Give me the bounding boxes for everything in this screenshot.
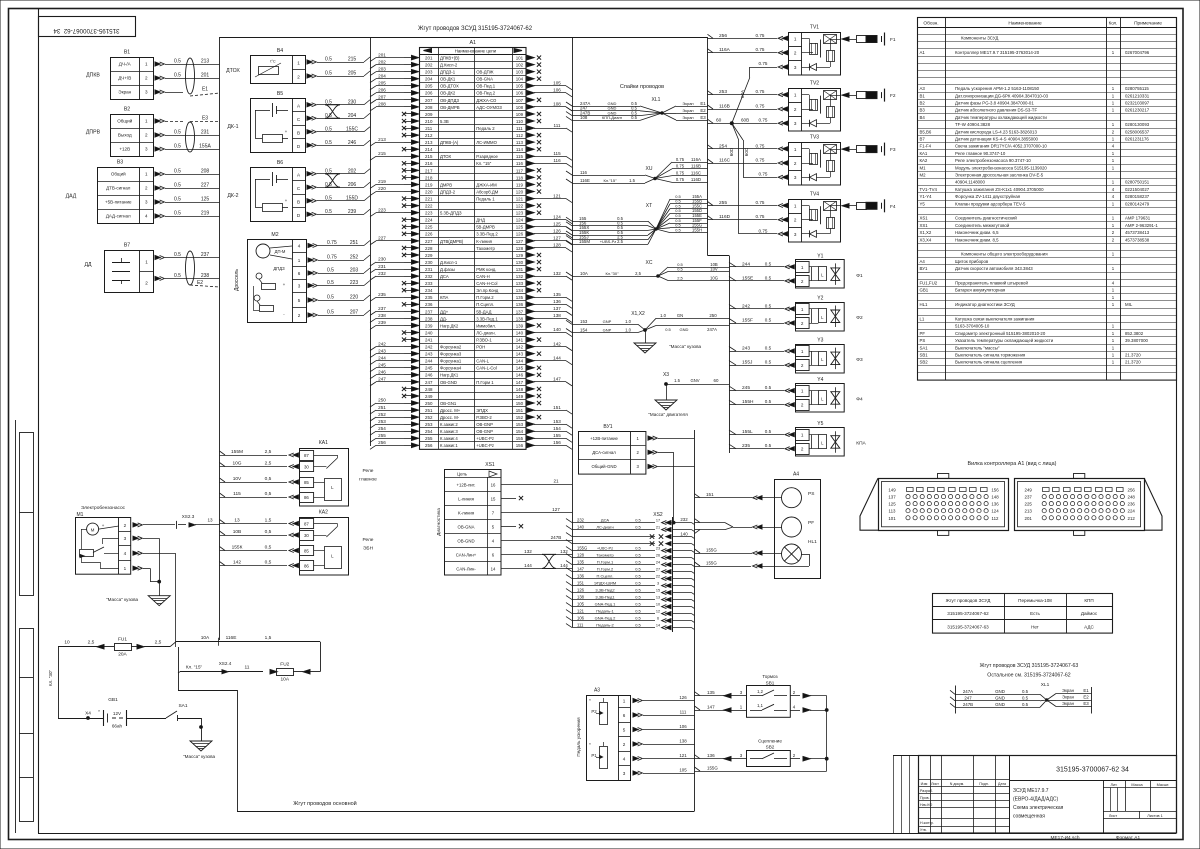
svg-text:223: 223 (350, 280, 359, 286)
svg-text:В7: В7 (124, 243, 130, 249)
svg-text:227: 227 (425, 239, 433, 244)
svg-text:1: 1 (794, 204, 797, 209)
svg-text:Дата: Дата (998, 782, 1006, 786)
svg-text:155Н: 155Н (742, 399, 754, 405)
svg-text:15: 15 (656, 588, 660, 592)
svg-text:251: 251 (350, 240, 359, 246)
svg-text:1,1: 1,1 (757, 703, 763, 708)
svg-text:Педаль 1: Педаль 1 (476, 196, 495, 201)
svg-text:4: 4 (298, 244, 301, 249)
ECU plug right half (1015, 474, 1145, 536)
svg-text:SB1: SB1 (766, 681, 775, 686)
svg-text:1: 1 (145, 119, 148, 124)
svg-text:0.75: 0.75 (759, 172, 768, 177)
title block footer texts (1050, 835, 1140, 841)
svg-text:105: 105 (516, 84, 524, 89)
svg-text:0.5: 0.5 (765, 360, 772, 365)
svg-text:155Е: 155Е (742, 275, 753, 281)
svg-text:153: 153 (580, 319, 588, 324)
svg-text:ДП-М: ДП-М (275, 249, 286, 254)
svg-text:F4: F4 (890, 204, 896, 210)
svg-text:0.5: 0.5 (635, 524, 641, 529)
svg-text:249: 249 (425, 394, 433, 399)
svg-text:АМР 179631: АМР 179631 (1125, 216, 1151, 221)
svg-text:232: 232 (425, 274, 433, 279)
svg-text:ДПКВ: ДПКВ (86, 73, 100, 79)
svg-text:252: 252 (425, 415, 433, 420)
svg-text:+12В: +12В (119, 147, 130, 152)
svg-text:26: 26 (656, 553, 660, 557)
svg-text:148: 148 (991, 495, 999, 500)
splice X3 engine ground (663, 372, 729, 400)
svg-text:136: 136 (577, 573, 585, 578)
svg-text:3.3В-Пед.1: 3.3В-Пед.1 (476, 316, 498, 321)
svg-text:121: 121 (577, 608, 585, 613)
svg-text:136: 136 (553, 299, 561, 304)
svg-text:Электробензонасос: Электробензонасос (81, 505, 126, 511)
svg-text:132: 132 (553, 271, 561, 276)
svg-text:Дат.синхронизации ДG-6РК 409: Дат.синхронизации ДG-6РК 40904.3847010-0… (955, 93, 1049, 98)
svg-text:218: 218 (425, 175, 433, 180)
svg-text:TV2: TV2 (810, 81, 819, 87)
svg-text:3,3В-Пед2: 3,3В-Пед2 (595, 587, 615, 592)
svg-text:203: 203 (425, 70, 433, 75)
svg-text:В6: В6 (277, 160, 283, 166)
svg-text:ОВ-GND: ОВ-GND (457, 539, 474, 544)
svg-text:Компоненты ЗСУД: Компоненты ЗСУД (961, 36, 998, 41)
svg-text:В2: В2 (920, 101, 926, 106)
svg-text:251: 251 (378, 405, 386, 410)
svg-text:XS2.4: XS2.4 (219, 661, 232, 666)
svg-text:2: 2 (801, 279, 804, 284)
svg-text:122: 122 (516, 204, 524, 209)
svg-text:2,5: 2,5 (155, 640, 162, 646)
svg-text:109: 109 (516, 112, 524, 117)
svg-text:Ф3: Ф3 (856, 357, 863, 363)
wires to Y3 (729, 346, 794, 368)
svg-text:Y5: Y5 (920, 201, 926, 206)
svg-text:230: 230 (378, 257, 386, 262)
svg-text:60D: 60D (729, 147, 734, 156)
svg-text:F1: F1 (890, 37, 896, 43)
svg-text:ОВ-Пед.2: ОВ-Пед.2 (476, 91, 496, 96)
accelerator pedal module A3 (576, 688, 631, 781)
svg-text:256: 256 (425, 443, 433, 448)
svg-text:Е2: Е2 (700, 108, 706, 113)
svg-text:TV4: TV4 (810, 191, 819, 197)
A1 left pin stubs and wires (370, 52, 419, 449)
svg-text:108: 108 (553, 102, 561, 107)
svg-text:238: 238 (378, 313, 386, 318)
svg-text:*: * (589, 742, 591, 747)
svg-text:10В: 10В (233, 529, 242, 535)
svg-text:Вилка контроллера А1 (вид: Вилка контроллера А1 (вид с лица) (968, 461, 1057, 467)
svg-text:0261230217: 0261230217 (1125, 108, 1150, 113)
svg-text:0.5: 0.5 (635, 580, 641, 585)
svg-text:244: 244 (425, 359, 433, 364)
svg-text:116Е: 116Е (226, 635, 237, 641)
svg-text:0.5: 0.5 (174, 130, 181, 136)
svg-text:125: 125 (516, 225, 524, 230)
svg-text:SB2: SB2 (920, 360, 929, 365)
svg-text:Наконечник диам. 6,5: Наконечник диам. 6,5 (955, 230, 999, 235)
svg-text:0.5: 0.5 (665, 327, 671, 332)
svg-text:125: 125 (888, 502, 896, 507)
svg-text:М2: М2 (271, 232, 278, 238)
svg-text:Е3: Е3 (1083, 701, 1089, 706)
svg-text:2: 2 (794, 51, 797, 56)
svg-text:Лит.: Лит. (1111, 783, 1118, 787)
svg-text:315195-3700067-62 34: 315195-3700067-62 34 (53, 27, 120, 34)
ground symbol M1 body (106, 596, 170, 606)
svg-text:147: 147 (707, 704, 715, 709)
svg-text:П.Горм.1: П.Горм.1 (597, 559, 614, 564)
svg-text:116В: 116В (691, 164, 701, 169)
svg-text:13: 13 (207, 518, 213, 523)
svg-text:147: 147 (553, 377, 561, 382)
svg-text:КА1: КА1 (920, 151, 928, 156)
svg-text:112: 112 (992, 516, 1000, 521)
splice XC battery 30 feed (566, 260, 718, 281)
svg-text:ОВ-Пед.1: ОВ-Пед.1 (476, 84, 496, 89)
svg-text:Х3,Х4: Х3,Х4 (920, 237, 932, 242)
svg-text:10: 10 (656, 602, 660, 606)
svg-text:КА1: КА1 (319, 440, 328, 446)
svg-text:Дросс. М+: Дросс. М+ (440, 408, 461, 413)
harness boundary top edge (220, 37, 708, 39)
svg-text:256: 256 (378, 440, 386, 445)
svg-text:Датчик детонации KS-4-S 409: Датчик детонации KS-4-S 40904.3855000 (955, 137, 1039, 142)
svg-text:20А: 20А (118, 652, 127, 658)
svg-text:155G: 155G (706, 560, 717, 565)
svg-text:213: 213 (378, 137, 386, 142)
svg-text:Масса: Масса (1131, 783, 1143, 787)
svg-text:М: М (91, 528, 95, 533)
svg-text:5В-ДАД: 5В-ДАД (476, 309, 491, 314)
svg-text:230: 230 (425, 260, 433, 265)
svg-text:203: 203 (378, 66, 386, 71)
svg-text:М2: М2 (920, 173, 927, 178)
svg-text:Форсунка4: Форсунка4 (440, 366, 462, 371)
svg-text:+U6С-Pz: +U6С-Pz (597, 545, 613, 550)
svg-text:121: 121 (553, 193, 561, 198)
svg-text:4: 4 (623, 757, 626, 762)
svg-text:XS2: XS2 (653, 512, 663, 518)
svg-text:116D: 116D (719, 214, 731, 220)
svg-text:В3: В3 (117, 160, 123, 166)
connector XS1 diagnostic (436, 462, 501, 575)
svg-text:0.5: 0.5 (675, 227, 681, 232)
svg-text:0232103097: 0232103097 (1125, 101, 1150, 106)
svg-text:250: 250 (378, 398, 386, 403)
svg-text:204: 204 (425, 77, 433, 82)
svg-text:151: 151 (553, 405, 561, 410)
svg-text:128: 128 (577, 552, 585, 557)
svg-text:0.5: 0.5 (765, 385, 772, 390)
ignition coil TV4 (789, 191, 841, 242)
svg-text:10G: 10G (710, 275, 718, 280)
svg-text:0.5: 0.5 (325, 140, 332, 146)
ECU connector table A1 (420, 40, 527, 449)
svg-text:213: 213 (1025, 509, 1033, 514)
svg-text:220: 220 (378, 186, 386, 191)
svg-text:М1: М1 (920, 165, 927, 170)
svg-text:237: 237 (201, 252, 210, 258)
svg-text:225: 225 (425, 225, 433, 230)
svg-text:ДАД: ДАД (66, 194, 77, 200)
svg-text:Утв.: Утв. (920, 828, 927, 832)
wires VU1 (648, 436, 695, 524)
svg-text:ДНД: ДНД (476, 218, 485, 223)
svg-text:Датчик абсолютного давления: Датчик абсолютного давления DS-S3-TF (955, 108, 1037, 113)
svg-text:Д.Кисл-2: Д.Кисл-2 (440, 63, 458, 68)
svg-text:104: 104 (516, 77, 524, 82)
svg-text:0.5: 0.5 (765, 399, 772, 404)
svg-text:КПП-Диагн: КПП-Диагн (602, 115, 622, 120)
svg-text:202: 202 (348, 168, 357, 174)
svg-text:149: 149 (888, 488, 896, 493)
svg-text:124: 124 (553, 214, 561, 219)
svg-text:156: 156 (553, 440, 561, 445)
harness -63 note (980, 663, 1079, 679)
svg-text:1: 1 (298, 258, 301, 263)
svg-text:ОВ-ДМРВ: ОВ-ДМРВ (440, 105, 460, 110)
svg-text:HL1: HL1 (808, 539, 817, 545)
svg-text:0.5: 0.5 (174, 59, 181, 65)
brake switch SB1 (747, 674, 791, 717)
svg-text:0.5: 0.5 (765, 429, 772, 434)
svg-text:116: 116 (580, 170, 588, 175)
svg-text:3: 3 (794, 121, 797, 126)
svg-text:N докум.: N докум. (950, 782, 965, 786)
svg-text:0.75: 0.75 (759, 61, 768, 66)
svg-text:Цепь: Цепь (457, 471, 468, 476)
svg-text:107: 107 (516, 98, 524, 103)
svg-text:236: 236 (1128, 502, 1136, 507)
svg-text:239: 239 (378, 320, 386, 325)
svg-text:116Е: 116Е (580, 178, 590, 183)
wires XS1 (501, 479, 572, 569)
svg-text:0.5: 0.5 (635, 587, 641, 592)
svg-text:КПА: КПА (440, 295, 449, 300)
svg-text:60С: 60С (744, 147, 749, 156)
svg-text:252: 252 (350, 255, 359, 261)
svg-text:5: 5 (298, 298, 301, 303)
svg-text:Педаль ускорения: Педаль ускорения (576, 717, 581, 757)
svg-text:101: 101 (516, 55, 524, 60)
svg-text:ДТВ-сигнал: ДТВ-сигнал (106, 186, 131, 191)
ignition coil TV3 (789, 135, 841, 186)
svg-text:0.75: 0.75 (756, 47, 765, 52)
spark plug F3 (842, 143, 896, 156)
svg-text:L1: L1 (920, 317, 925, 322)
svg-text:222: 222 (425, 204, 433, 209)
svg-text:ДСА: ДСА (601, 517, 610, 522)
svg-text:Жгут проводов ЗСУД 315195-3: Жгут проводов ЗСУД 315195-3724067-63 (980, 663, 1079, 669)
svg-text:Жгут проводов ЗСУД: Жгут проводов ЗСУД (946, 598, 992, 603)
svg-text:3: 3 (145, 147, 148, 152)
svg-text:153: 153 (516, 422, 524, 427)
svg-text:0261231176: 0261231176 (1125, 137, 1149, 142)
svg-text:Лист: Лист (931, 782, 939, 786)
svg-text:ДСА: ДСА (440, 274, 449, 279)
svg-text:116А: 116А (719, 47, 731, 53)
svg-text:40904.1148000: 40904.1148000 (955, 180, 985, 185)
svg-text:225: 225 (1025, 502, 1033, 507)
svg-text:Реле главное 90.3747-10: Реле главное 90.3747-10 (955, 151, 1006, 156)
svg-text:Примечание: Примечание (1134, 21, 1162, 27)
svg-text:127: 127 (552, 507, 560, 512)
svg-text:212: 212 (425, 133, 433, 138)
svg-text:Выключатель "массы": Выключатель "массы" (955, 345, 1000, 350)
svg-text:211: 211 (425, 126, 433, 131)
svg-text:А1: А1 (920, 50, 926, 55)
svg-text:0.5: 0.5 (174, 183, 181, 189)
wires to TV2 pins 1,2 (708, 89, 788, 111)
svg-text:242: 242 (742, 303, 750, 309)
svg-text:5В-ДМРВ: 5В-ДМРВ (476, 225, 495, 230)
svg-text:154: 154 (516, 429, 524, 434)
svg-text:0.75: 0.75 (676, 157, 685, 162)
svg-text:TV1: TV1 (810, 25, 819, 31)
svg-text:201: 201 (1025, 516, 1033, 521)
svg-text:XC: XC (646, 260, 653, 266)
svg-text:Соединитель межжгутовой: Соединитель межжгутовой (955, 223, 1010, 228)
svg-text:209: 209 (425, 112, 433, 117)
svg-text:208: 208 (425, 105, 433, 110)
svg-text:Y2: Y2 (817, 296, 823, 302)
connector B6 lambda sensor DK-2 (227, 160, 305, 222)
svg-text:Пров.: Пров. (920, 796, 930, 800)
svg-text:"Масса" кузова: "Масса" кузова (183, 754, 215, 759)
svg-text:87: 87 (304, 522, 309, 527)
svg-text:В3: В3 (920, 108, 926, 113)
svg-text:1.0: 1.0 (625, 319, 631, 324)
svg-text:1.0: 1.0 (660, 313, 666, 318)
svg-text:1: 1 (801, 433, 804, 438)
master switch SA1 (166, 703, 202, 741)
svg-text:1,5: 1,5 (265, 518, 272, 524)
svg-text:219: 219 (425, 182, 433, 187)
harness boundary bottom-left segment (178, 647, 238, 811)
svg-text:CAN-L-Col: CAN-L-Col (476, 366, 497, 371)
svg-text:0.5: 0.5 (765, 346, 772, 351)
svg-text:Батарея аккумуляторная: Батарея аккумуляторная (955, 288, 1006, 293)
svg-text:245: 245 (425, 366, 433, 371)
svg-text:П.Горм.2: П.Горм.2 (597, 566, 614, 571)
svg-text:А3: А3 (594, 688, 600, 694)
svg-text:248: 248 (1128, 495, 1136, 500)
components list table (917, 18, 1177, 381)
svg-text:ДК-1: ДК-1 (227, 124, 238, 130)
svg-text:0.5: 0.5 (327, 295, 334, 301)
svg-text:125: 125 (553, 221, 561, 226)
svg-text:Е2: Е2 (197, 280, 203, 286)
svg-text:TV3: TV3 (810, 135, 819, 141)
svg-text:Диагностика: Диагностика (436, 508, 442, 536)
svg-text:227: 227 (201, 183, 210, 189)
wires to TV4 pins 1,2 (708, 200, 788, 222)
svg-text:106: 106 (577, 615, 585, 620)
svg-text:245: 245 (378, 362, 386, 367)
svg-text:П.Сцепл.: П.Сцепл. (597, 573, 614, 578)
svg-text:155L: 155L (742, 429, 753, 435)
wires A4 (680, 492, 809, 568)
svg-text:147: 147 (516, 380, 524, 385)
svg-text:Общий: Общий (111, 171, 126, 177)
svg-text:253: 253 (378, 419, 386, 424)
svg-text:247: 247 (425, 380, 433, 385)
wires B6 to A1 (202, 206, 155D, 239) (307, 168, 370, 216)
svg-text:133: 133 (516, 281, 524, 286)
svg-text:3: 3 (623, 771, 626, 776)
svg-text:Выключатель сигнала торможен: Выключатель сигнала торможения (955, 353, 1026, 358)
svg-text:2: 2 (124, 523, 127, 528)
splice XT battery-plus bundle (566, 194, 708, 245)
svg-text:106: 106 (553, 88, 561, 93)
svg-text:Датчик скорости автомобиля: Датчик скорости автомобиля 343.3843 (955, 266, 1033, 271)
svg-text:HL1: HL1 (920, 302, 929, 307)
svg-text:15: 15 (491, 496, 496, 501)
svg-text:116В: 116В (719, 104, 730, 110)
svg-text:135: 135 (553, 292, 561, 297)
svg-text:GNP: GNP (603, 327, 612, 332)
svg-text:146: 146 (516, 373, 524, 378)
injector valve Y4 (796, 377, 863, 412)
svg-text:231: 231 (378, 264, 386, 269)
svg-text:Н.контр.: Н.контр. (920, 821, 934, 825)
svg-text:В: В (297, 131, 300, 136)
svg-text:60В: 60В (741, 118, 749, 123)
wire 60 ignition ground node (708, 61, 788, 236)
svg-text:155G: 155G (577, 545, 587, 550)
svg-text:117: 117 (516, 168, 524, 173)
inter-harness connector XS2 bundle (566, 512, 695, 632)
svg-text:2: 2 (298, 313, 301, 318)
svg-text:ДД+: ДД+ (440, 309, 449, 314)
svg-text:П.Сцепл.: П.Сцепл. (476, 302, 494, 307)
svg-text:ОВ-ДПЖ: ОВ-ДПЖ (476, 70, 493, 75)
svg-text:85: 85 (304, 549, 309, 554)
svg-text:114: 114 (516, 147, 524, 152)
spark plug F1 (842, 33, 896, 46)
svg-text:111: 111 (516, 126, 523, 131)
svg-text:0,5: 0,5 (265, 529, 272, 535)
svg-text:А4: А4 (920, 259, 926, 264)
svg-text:155D: 155D (346, 195, 358, 201)
svg-text:220: 220 (350, 295, 359, 301)
svg-text:3: 3 (794, 65, 797, 70)
svg-text:10V: 10V (710, 266, 718, 271)
svg-text:140: 140 (577, 524, 585, 529)
svg-text:220: 220 (425, 189, 433, 194)
wires M1 pins (133, 514, 220, 647)
svg-text:116А: 116А (691, 157, 701, 162)
svg-text:ДЖХА-СО: ДЖХА-СО (476, 98, 497, 103)
svg-text:В4: В4 (277, 48, 283, 54)
svg-text:118: 118 (516, 175, 524, 180)
svg-text:235: 235 (742, 443, 750, 449)
wires B3 to A1 (208, 227, 125, 219) (155, 169, 220, 219)
svg-text:207: 207 (350, 310, 359, 316)
svg-text:5.3В-ДПДЗ: 5.3В-ДПДЗ (440, 211, 462, 216)
svg-text:136: 136 (516, 302, 524, 307)
svg-text:239: 239 (425, 323, 433, 328)
svg-text:2: 2 (801, 321, 804, 326)
svg-text:Кл. "30": Кл. "30" (48, 669, 53, 686)
svg-text:131: 131 (516, 267, 524, 272)
svg-text:208: 208 (378, 102, 386, 107)
